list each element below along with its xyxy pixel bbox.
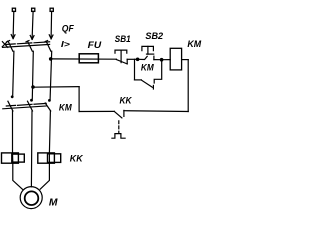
wire phase2 lower [30, 111, 33, 187]
svg-text:I>: I> [61, 40, 70, 49]
arrowhead L2 [30, 35, 34, 39]
svg-text:FU: FU [88, 40, 102, 50]
wire to fuse [51, 58, 117, 60]
wire phase3 lower [49, 111, 50, 153]
wire node1 to SB2 [138, 56, 148, 59]
wire KK row right [124, 110, 188, 113]
wire phase1 lower [12, 111, 14, 153]
contact KM pole2 upper dot [30, 99, 33, 102]
contact KM pole1 upper dot [11, 95, 14, 98]
motor M circle [20, 187, 42, 209]
button SB2 handle [142, 46, 154, 50]
wire L1 drop [12, 11, 15, 38]
contact KK right tick [123, 110, 125, 116]
breaker QF pole3 blade [46, 41, 51, 51]
svg-text:SB1: SB1 [115, 34, 131, 45]
contactor KM pole3 blade [45, 103, 51, 111]
wire L3 drop [50, 11, 53, 38]
wire KK row left [79, 110, 114, 112]
button SB1 stem [120, 50, 122, 63]
svg-text:KK: KK [120, 96, 133, 106]
heater KK phase3 [48, 153, 50, 163]
contactor KM linkage bar [6, 103, 46, 106]
contact KM pole3 upper dot [48, 99, 51, 102]
wire phase1 mid [13, 51, 14, 95]
fuse FU [79, 54, 98, 63]
arrowhead L1 [11, 35, 15, 39]
contact KK actuator [112, 134, 125, 139]
wire aux left [135, 79, 142, 81]
breaker QF pole1 blade [8, 41, 13, 51]
wire phase3 mid [50, 51, 52, 99]
wire phase2 mid [32, 51, 33, 99]
contactor KM pole1 blade [8, 101, 13, 111]
svg-text:M: M [49, 197, 58, 208]
contact KK dashed link [118, 121, 120, 133]
terminal L3 [50, 8, 53, 11]
svg-text:QF: QF [62, 24, 74, 34]
button SB1 right tick [126, 59, 128, 64]
svg-text:KM: KM [141, 63, 154, 73]
contact KM aux tick [152, 85, 154, 89]
terminal L1 [12, 8, 15, 11]
contact KK blade [114, 111, 122, 118]
heater KK phase1 [12, 153, 14, 163]
breaker QF linkage bar [6, 42, 50, 45]
breaker QF pole2 blade [28, 41, 33, 51]
node fuse tap [49, 57, 53, 61]
coil KM [170, 48, 181, 70]
wire SB1 to node1 [127, 58, 137, 60]
contactor KM pole2 blade [28, 101, 33, 111]
arrowhead L3 [49, 35, 53, 39]
svg-text:KM: KM [187, 39, 201, 49]
wire corner down [78, 87, 80, 112]
wire coil right [182, 59, 189, 61]
wire control tap to corner [33, 86, 79, 89]
button SB1 handle [115, 50, 127, 53]
node before SB2 [136, 58, 140, 62]
node control tap [31, 85, 35, 89]
node after SB2 [160, 58, 164, 62]
wire node2 to coil [162, 59, 171, 61]
svg-text:KM: KM [59, 103, 72, 113]
svg-text:KK: KK [70, 154, 84, 164]
contact KM aux blade [141, 80, 152, 87]
wire L2 drop [32, 11, 33, 39]
svg-text:SB2: SB2 [145, 31, 163, 42]
contact KM aux selflock left drop [134, 59, 136, 80]
button SB2 bridge [147, 53, 154, 55]
button SB2 right tick [153, 56, 155, 59]
terminal L2 [32, 8, 35, 11]
wire SB2 to node2 [154, 59, 162, 61]
wire aux right up [154, 60, 162, 83]
button SB2 stem [147, 46, 149, 54]
breaker QF cross mark [2, 41, 8, 47]
wire phase1 to motor [13, 163, 23, 189]
wire right side down [187, 60, 189, 112]
wire phase3 to motor [40, 163, 49, 189]
button SB1 blade [116, 60, 127, 64]
